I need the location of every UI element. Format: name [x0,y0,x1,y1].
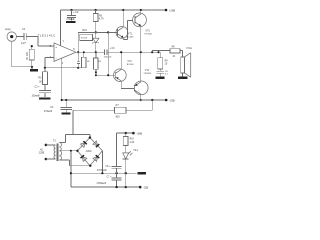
svg-text:C6 +: C6 + [106,166,112,168]
svg-text:82К: 82К [116,115,121,118]
svg-text:HL1: HL1 [134,149,139,152]
svg-text:VT3: VT3 [146,30,151,32]
svg-text:VT4: VT4 [145,70,150,72]
svg-text:TLE2141C: TLE2141C [38,33,57,37]
svg-text:C2 +: C2 + [35,85,41,88]
svg-text:2,2К: 2,2К [130,142,135,144]
svg-text:+ C6: + C6 [110,48,116,50]
svg-text:+38В: +38В [136,132,142,135]
svg-text:вход: вход [5,28,11,31]
svg-text:100мкФ: 100мкФ [32,95,40,98]
svg-text:470мкФ: 470мкФ [66,18,74,21]
svg-text:VD1: VD1 [82,29,87,32]
svg-text:1000: 1000 [86,150,92,153]
svg-text:BC546: BC546 [127,37,134,39]
svg-text:C7 +: C7 + [107,177,113,179]
svg-text:4700мкФ: 4700мкФ [97,169,107,172]
svg-text:+ C4: + C4 [73,11,79,14]
svg-text:0,47: 0,47 [21,42,26,45]
svg-text:АС: АС [40,149,43,152]
svg-text:КС515: КС515 [81,38,88,40]
svg-text:−: − [55,57,57,61]
svg-text:8 Ом: 8 Ом [186,47,192,50]
svg-text:-25В: -25В [169,98,175,102]
svg-text:VT2: VT2 [127,61,132,63]
svg-text:BC556: BC556 [127,64,134,66]
svg-text:R10: R10 [130,139,135,141]
svg-text:+25В: +25В [169,8,175,12]
svg-text:R1 47К: R1 47К [27,51,29,59]
svg-text:+: + [55,45,57,49]
svg-text:VT1: VT1 [128,34,133,36]
svg-text:220В: 220В [39,152,45,154]
svg-text:TIP41A: TIP41A [144,32,152,35]
svg-text:100мкФ: 100мкФ [104,56,112,59]
svg-text:4,7К: 4,7К [99,18,104,21]
svg-text:-25В: -25В [143,186,148,189]
svg-text:470мкФ: 470мкФ [44,110,52,113]
svg-text:TIP42A: TIP42A [143,72,151,75]
svg-text:4700мкФ: 4700мкФ [97,182,107,185]
